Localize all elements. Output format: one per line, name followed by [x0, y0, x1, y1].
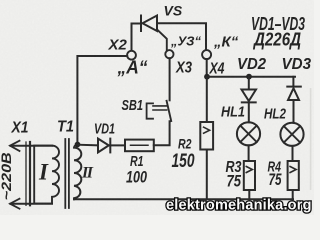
node junction secondary/VD1 — [75, 142, 81, 148]
wire bottom bus — [74, 198, 293, 200]
diode VD3 — [287, 77, 301, 123]
wire R1 to SB1 — [154, 121, 170, 145]
node junction VD2 — [246, 74, 252, 80]
wire HL2 to R4 — [292, 146, 294, 161]
wire X1 to primary top — [11, 145, 53, 147]
wire X4 to junction — [206, 59, 208, 75]
wire HL1 to R3 — [248, 145, 250, 161]
wire X2 to secondary top — [77, 56, 127, 144]
wire thyristor to X4 (top right horizontal + vertical) — [157, 23, 206, 50]
scan artifact: faint right edge line — [310, 88, 312, 190]
node junction X4/R2/bus — [204, 74, 210, 80]
wire X1 to primary bottom — [11, 203, 53, 205]
transformer T1 core — [65, 139, 69, 208]
connector X1 top pin arrow — [10, 141, 20, 151]
resistor R1 — [125, 140, 154, 152]
switch SB1 — [147, 58, 172, 121]
lamp HL1 — [237, 122, 260, 145]
transformer T1 secondary winding II — [74, 145, 81, 200]
terminal X2 — [127, 51, 136, 60]
terminal X3 — [165, 50, 173, 58]
connector X1 bottom pin arrow — [10, 199, 20, 209]
diode VD2 — [242, 77, 257, 123]
wire junction to VD1 — [78, 144, 99, 147]
wire R3 to bottom bus — [248, 190, 250, 199]
thyristor VS — [141, 16, 167, 50]
diode VD1 — [98, 139, 125, 153]
wire X2 to thyristor anode (top left vertical + horizontal) — [132, 24, 141, 51]
resistor R3 — [244, 161, 255, 190]
lamp HL2 — [280, 123, 303, 146]
wire bus to VD2/VD3 — [207, 76, 295, 78]
transformer T1 primary winding I — [34, 146, 59, 204]
resistor R4 — [288, 161, 299, 190]
terminal X4 — [202, 50, 211, 59]
wire R2 to bottom bus — [206, 150, 208, 200]
wire R4 to bottom bus — [292, 190, 294, 199]
resistor R2 — [200, 122, 213, 150]
wire junction to R2 — [206, 77, 208, 122]
connector X1 socket lines — [25, 142, 27, 205]
